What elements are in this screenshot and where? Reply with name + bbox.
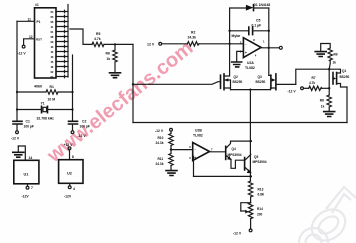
svg-text:RST: RST: [36, 38, 42, 42]
svg-text:4: 4: [255, 54, 257, 58]
ground U1: [17, 146, 19, 152]
ground U2A plus input: [237, 51, 244, 61]
svg-text:Q1: Q1: [342, 69, 346, 73]
transistor Q1 BS250: [328, 69, 330, 88]
svg-text:TL082: TL082: [245, 66, 255, 70]
capacitor C2: [69, 121, 78, 124]
resistor R5 4.7k: [92, 42, 104, 46]
feedback vertical right: [268, 8, 270, 75]
resistor R2 24.3k: [187, 42, 199, 46]
svg-text:0.1 µF: 0.1 µF: [252, 24, 262, 28]
transistor Q2 BS250: [220, 75, 222, 88]
node Q4 collector: [250, 140, 252, 142]
svg-text:24.3k: 24.3k: [156, 162, 164, 166]
svg-text:6: 6: [189, 145, 191, 149]
svg-text:14: 14: [29, 156, 33, 160]
svg-text:Mylar: Mylar: [232, 34, 242, 38]
op-amp U2B TL082: [193, 143, 210, 161]
svg-text:P1: P1: [37, 20, 41, 24]
svg-text:C5: C5: [256, 19, 260, 23]
IC right pin stubs with ticks: [56, 10, 68, 78]
svg-text:Q3: Q3: [258, 75, 262, 79]
svg-text:12 V: 12 V: [147, 42, 155, 46]
vertical Q2/Q3 node down to R13: [249, 90, 251, 181]
svg-text:-12 V: -12 V: [288, 89, 297, 93]
svg-text:-12 V: -12 V: [233, 232, 242, 236]
svg-text:+: +: [245, 50, 248, 55]
U1 pin7 terminal -12V: [27, 184, 29, 186]
svg-text:R9: R9: [334, 53, 338, 57]
svg-text:200: 200: [257, 213, 263, 217]
svg-text:04: 04: [51, 10, 54, 14]
svg-text:01: 01: [51, 30, 54, 34]
ground R6: [110, 73, 121, 78]
svg-text:5: 5: [189, 156, 191, 160]
wire U2A node to Q2 drain: [224, 44, 230, 76]
svg-text:11: 11: [51, 25, 54, 29]
capacitor C5 0.1uF Mylar: [230, 30, 249, 32]
svg-text:D1 1N4148: D1 1N4148: [254, 3, 271, 7]
svg-text:R5: R5: [96, 32, 100, 36]
svg-text:C1: C1: [26, 120, 30, 124]
svg-text:7: 7: [31, 186, 33, 190]
svg-text:R8: R8: [320, 99, 324, 103]
U2 pin4 terminal -12V: [69, 183, 71, 186]
wire Q2 source to Q3: [231, 89, 271, 91]
svg-text:8: 8: [72, 155, 74, 159]
transistor Q3 BS250: [269, 74, 271, 76]
svg-text:U2: U2: [67, 172, 72, 176]
svg-text:24.3k: 24.3k: [156, 141, 164, 145]
node R5/R6: [114, 43, 116, 45]
svg-text:R11: R11: [158, 157, 164, 161]
wire divider to U2B: [171, 149, 193, 151]
feedback vertical left: [230, 8, 246, 44]
svg-text:-: -: [245, 42, 247, 47]
wire feedback bottom: [194, 175, 251, 177]
svg-text:BS250: BS250: [340, 75, 350, 79]
ground R11: [166, 171, 177, 176]
node rail-Y1: [16, 108, 18, 110]
svg-text:1: 1: [263, 40, 265, 44]
ground R8: [324, 112, 335, 117]
svg-text:05: 05: [51, 15, 54, 19]
resistor R10 24.3k: [169, 134, 173, 146]
vertical from pin bus to crystal: [72, 55, 74, 121]
ground R9 loop: [315, 52, 326, 57]
IC pin numbers: [51, 10, 54, 79]
svg-text:16: 16: [51, 65, 54, 69]
node U2A input: [228, 43, 230, 45]
svg-text:10 M: 10 M: [48, 98, 56, 102]
svg-text:13: 13: [51, 55, 54, 59]
svg-text:11: 11: [28, 17, 32, 21]
svg-text:4: 4: [73, 187, 75, 191]
svg-text:R2: R2: [191, 31, 195, 35]
op-amp U2A TL082: [243, 38, 261, 58]
svg-text:12: 12: [29, 35, 33, 39]
terminal -12V pin12: [22, 45, 25, 48]
transistor Q4 MPS3904: [225, 146, 227, 159]
crystal Y1 32.768kHz: [17, 109, 42, 111]
svg-text:4.7k: 4.7k: [94, 37, 101, 41]
svg-text:Y1: Y1: [41, 102, 45, 106]
node divider: [170, 148, 172, 150]
terminal -12V bottom: [250, 219, 252, 229]
node rail-R1: [16, 91, 18, 93]
svg-text:-12 V: -12 V: [155, 129, 164, 133]
svg-text:1k: 1k: [321, 105, 325, 109]
transistor Q5 MPS3904: [244, 158, 246, 171]
svg-text:MPS3904: MPS3904: [228, 153, 242, 157]
svg-text:8: 8: [253, 38, 255, 42]
watermark gray ed: [299, 187, 356, 243]
svg-text:Q5: Q5: [254, 155, 258, 159]
svg-text:-12 V: -12 V: [18, 52, 27, 56]
wire Q3 to Q1: [296, 69, 329, 84]
wire Q1 drain down: [346, 87, 348, 123]
svg-text:6.8K: 6.8K: [258, 193, 265, 197]
node gate wire: [132, 83, 134, 85]
svg-text:R10: R10: [158, 136, 164, 140]
svg-text:1k: 1k: [107, 57, 111, 61]
output U2B to Q4 base: [210, 151, 226, 153]
svg-text:09: 09: [51, 40, 54, 44]
svg-text:08: 08: [51, 35, 54, 39]
svg-text:TL082: TL082: [193, 134, 203, 138]
svg-text:BS250: BS250: [256, 80, 266, 84]
resistor R9 1k: [328, 48, 332, 61]
svg-text:10: 10: [51, 45, 54, 49]
long feedback wire bottom: [133, 122, 347, 124]
svg-text:Q4: Q4: [232, 147, 236, 151]
potentiometer R14 200: [241, 203, 251, 211]
resistor R6 1k: [114, 44, 116, 50]
box U1: [14, 160, 39, 184]
wire to Q2 gate: [133, 82, 221, 85]
svg-text:15: 15: [51, 60, 54, 64]
resistor R11 24.3k: [169, 154, 173, 166]
svg-text:R6: R6: [106, 52, 110, 56]
node Q1 top: [328, 68, 330, 70]
node R7/R8/Q1 gate: [328, 87, 330, 89]
svg-text:24.3k: 24.3k: [188, 36, 197, 40]
pin bus vertical: [67, 5, 69, 78]
box U2: [59, 160, 83, 184]
svg-text:-12 V: -12 V: [11, 137, 20, 141]
svg-text:100 pF: 100 pF: [80, 125, 90, 129]
svg-text:R14: R14: [257, 207, 263, 211]
svg-text:BS250: BS250: [233, 80, 243, 84]
svg-text:MPS3904: MPS3904: [253, 160, 267, 164]
svg-text:U1: U1: [24, 173, 29, 177]
svg-text:-: -: [195, 147, 197, 152]
svg-text:U2A: U2A: [247, 61, 254, 65]
svg-text:06: 06: [51, 20, 54, 24]
terminal output: [279, 46, 282, 49]
resistor R13 6.8k: [248, 181, 252, 197]
capacitor C1: [16, 110, 18, 121]
wire to U1 pin14: [18, 146, 25, 160]
svg-text:#1: #1: [35, 3, 39, 7]
wire IC to R5: [70, 29, 92, 44]
svg-text:-12V: -12V: [22, 195, 30, 199]
svg-text:7: 7: [211, 148, 213, 152]
svg-text:100 pF: 100 pF: [24, 125, 34, 129]
svg-text:02: 02: [51, 70, 54, 74]
wire pin11 left: [17, 20, 35, 22]
IC U3 4060 body: [35, 8, 57, 78]
output wire U2A: [261, 47, 279, 49]
svg-text:Q2: Q2: [234, 75, 238, 79]
diode D1 1N4148: [246, 5, 253, 11]
resistor R8 1k: [328, 88, 330, 95]
svg-text:-12V: -12V: [64, 195, 72, 199]
svg-text:1k: 1k: [333, 61, 337, 65]
svg-text:R13: R13: [258, 188, 264, 192]
svg-text:-12 V: -12 V: [78, 134, 87, 138]
svg-text:U2B: U2B: [195, 129, 202, 133]
svg-text:12: 12: [51, 50, 54, 54]
svg-text:32.768 kHz: 32.768 kHz: [37, 117, 55, 121]
svg-text:C2: C2: [82, 120, 86, 124]
U2B plus input to feedback: [192, 156, 195, 176]
svg-text:4060: 4060: [34, 85, 42, 89]
wire pin12 reset: [24, 39, 35, 45]
resistor R1 10M: [17, 91, 46, 93]
wire down from R5 node: [132, 44, 134, 122]
svg-text:R7: R7: [312, 76, 316, 80]
resistor R7 4.7k: [309, 86, 322, 90]
left rail wire: [16, 21, 18, 110]
svg-text:R1: R1: [50, 85, 54, 89]
svg-text:4.7k: 4.7k: [309, 81, 315, 85]
